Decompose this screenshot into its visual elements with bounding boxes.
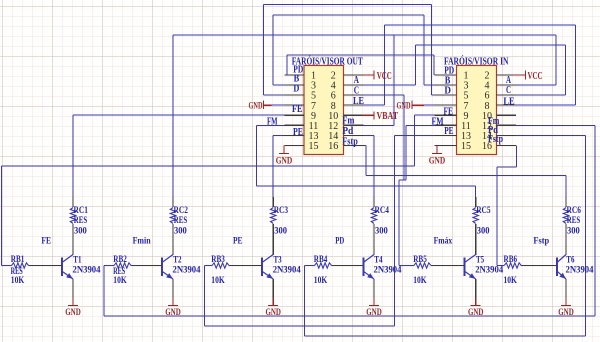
- svg-text:GND: GND: [276, 157, 293, 167]
- node Fm&#225;x (stage 5 input net label): [434, 237, 453, 247]
- resistor RB5 10K: [399, 255, 465, 286]
- wire net Pd-out (U1 pin14 to RC4/T4 collector): [364, 135, 375, 197]
- wire net PE-out (U1 pin13 to RC3/T3 collector): [273, 135, 284, 197]
- svg-text:GND: GND: [468, 308, 484, 318]
- ground GND at T3 emitter: [265, 279, 281, 318]
- node PD (stage 4 input net label): [335, 237, 344, 247]
- ground GND at T1 emitter: [65, 279, 81, 318]
- svg-text:PE: PE: [293, 127, 303, 138]
- wire net C (U1 pin6 riser): [364, 95, 405, 180]
- resistor RC3 300: [271, 197, 289, 255]
- ground GND at U2 pin 7: [397, 101, 435, 112]
- svg-text:300: 300: [375, 227, 388, 237]
- svg-text:Fm: Fm: [342, 116, 355, 127]
- svg-text:RC1: RC1: [74, 206, 89, 216]
- wire net Fstp-in (U2 pin16 to RB6): [497, 145, 517, 265]
- svg-text:15: 15: [461, 141, 471, 152]
- node Fstp (stage 6 input net label): [533, 237, 549, 247]
- svg-text:RB2: RB2: [113, 255, 127, 265]
- wire net Fmin-in (U2 pin12 to RB2 via bottom): [104, 125, 595, 316]
- transistor T5 2N3904: [465, 255, 504, 280]
- transistor T2 2N3904: [162, 255, 201, 280]
- svg-text:300: 300: [567, 227, 580, 237]
- svg-text:LE: LE: [503, 97, 515, 108]
- svg-text:2N3904: 2N3904: [566, 265, 594, 275]
- svg-text:Fstp: Fstp: [533, 237, 549, 247]
- node FE (stage 1 input net label): [41, 237, 51, 247]
- svg-text:PE: PE: [444, 126, 454, 137]
- resistor RC4 300: [371, 197, 389, 255]
- resistor RC6 300: [563, 197, 581, 255]
- svg-text:PD: PD: [335, 237, 344, 247]
- ground GND at U1 pin 15: [276, 145, 293, 166]
- resistor RB6 10K: [497, 255, 557, 286]
- svg-text:300: 300: [74, 227, 87, 237]
- svg-text:VCC: VCC: [528, 71, 543, 82]
- svg-text:10K: 10K: [504, 276, 518, 286]
- svg-text:Fmáx: Fmáx: [434, 237, 453, 247]
- svg-text:RC4: RC4: [375, 206, 390, 216]
- wire net PD-in (U2 pin14 to RB4 via bottom): [304, 135, 585, 336]
- wire net FE-in (U2 pin9 to RB1): [2, 115, 435, 265]
- svg-text:FE: FE: [41, 237, 51, 247]
- svg-text:RB5: RB5: [413, 255, 427, 265]
- transistor T6 2N3904: [557, 255, 594, 280]
- svg-text:T4: T4: [374, 256, 382, 266]
- svg-text:GND: GND: [265, 308, 281, 318]
- svg-text:2N3904: 2N3904: [273, 265, 301, 275]
- svg-text:2N3904: 2N3904: [374, 265, 402, 275]
- resistor RC2 300: [170, 197, 188, 255]
- svg-text:T3: T3: [274, 256, 282, 266]
- ground GND at T2 emitter: [165, 279, 181, 318]
- svg-text:10K: 10K: [113, 276, 127, 286]
- svg-text:RC3: RC3: [274, 206, 289, 216]
- svg-text:C: C: [354, 85, 359, 96]
- svg-text:D: D: [444, 85, 451, 96]
- U1 left pin stubs (pins 1,3,5,7,9,11,13,15): [285, 75, 305, 145]
- ground GND at U2 pin 15: [429, 145, 446, 166]
- svg-text:Pd: Pd: [342, 126, 354, 137]
- U1 left pin net labels PD B D FE FM PE: [267, 64, 303, 138]
- wire net FM-in (U2 pin11 to RB5): [399, 125, 435, 265]
- wire net PE-in (U2 pin13 to RB3 via bottom): [205, 135, 435, 326]
- power VCC at U1 pin 2: [364, 71, 392, 82]
- svg-text:RC2: RC2: [174, 206, 189, 216]
- svg-text:GND: GND: [165, 308, 181, 318]
- svg-text:10K: 10K: [211, 276, 225, 286]
- svg-text:300: 300: [174, 227, 187, 237]
- wire net D (U1 pin5 to U2 pin5 via top): [264, 5, 435, 96]
- svg-text:10K: 10K: [413, 276, 427, 286]
- svg-text:LE: LE: [353, 96, 364, 107]
- ground GND at U1 pin 7: [249, 101, 285, 112]
- svg-text:2N3904: 2N3904: [475, 265, 503, 275]
- svg-text:16: 16: [328, 141, 338, 152]
- svg-text:15: 15: [309, 141, 319, 152]
- ground GND at T5 emitter: [468, 279, 484, 318]
- resistor RB3 10K: [205, 255, 263, 286]
- power VCC at U2 pin 2: [513, 71, 543, 82]
- ground GND at T6 emitter: [558, 279, 574, 318]
- svg-text:10K: 10K: [11, 276, 25, 286]
- svg-text:C: C: [506, 85, 511, 96]
- svg-text:2N3904: 2N3904: [173, 265, 201, 275]
- U2 left pin net labels PD B D FE FM PE: [432, 65, 455, 137]
- wire net B (U1 pin3 to U2 pin3 via top): [273, 15, 435, 85]
- svg-text:T5: T5: [476, 256, 484, 266]
- resistor RC5 300: [473, 197, 491, 255]
- svg-text:Fstp: Fstp: [488, 134, 503, 145]
- U2 right pin stubs (pins 2,4,6,8,10,12,14,16): [497, 75, 517, 145]
- svg-text:VBAT: VBAT: [377, 111, 399, 122]
- wire net A (U1 pin4 to U2 pin6 via top): [364, 45, 566, 95]
- power VBAT at U1 pin 10: [362, 111, 398, 122]
- svg-text:GND: GND: [366, 308, 382, 318]
- svg-text:RES: RES: [567, 216, 580, 226]
- svg-text:FE: FE: [444, 107, 454, 118]
- U2 right pin net labels A C LE Fm Pd Fstp: [488, 75, 515, 145]
- svg-text:RB1: RB1: [11, 255, 25, 265]
- svg-text:T6: T6: [566, 256, 574, 266]
- svg-text:300: 300: [274, 227, 287, 237]
- svg-text:T1: T1: [73, 256, 81, 266]
- transistor T3 2N3904: [262, 255, 301, 280]
- svg-text:RB4: RB4: [314, 255, 328, 265]
- resistor RC1 300: [70, 197, 88, 255]
- wire net LE (U1 pin8 to U2 pin8 via top): [364, 25, 576, 105]
- IC U2 FAROIS/VISOR IN (16-pin header): [444, 55, 509, 154]
- svg-text:RB3: RB3: [211, 255, 225, 265]
- wire net FM-out (U1 pin11 to RC5/T5 collector): [257, 125, 476, 197]
- transistor T1 2N3904: [62, 255, 101, 280]
- svg-text:Fstp: Fstp: [342, 136, 358, 147]
- wire net PD (U1 pin1 to U2 pin1): [287, 55, 434, 75]
- U1 right pin stubs (pins 2,4,6,8,10,12,14,16): [344, 75, 364, 145]
- resistor RB2 10K: [104, 255, 162, 286]
- svg-text:RB6: RB6: [504, 255, 518, 265]
- svg-text:GND: GND: [558, 308, 574, 318]
- svg-text:GND: GND: [249, 101, 263, 111]
- transistor T4 2N3904: [363, 255, 401, 280]
- U1 right pin net labels A C LE Fm Pd Fstp: [342, 75, 364, 147]
- svg-text:RC6: RC6: [567, 206, 582, 216]
- ground GND at T4 emitter: [366, 279, 382, 318]
- node PE (stage 3 input net label): [233, 237, 243, 247]
- svg-text:GND: GND: [65, 308, 81, 318]
- svg-text:GND: GND: [429, 157, 446, 167]
- resistor RB1 10K: [2, 255, 62, 286]
- svg-text:10K: 10K: [314, 276, 328, 286]
- IC U1 FAROIS/VISOR OUT (16-pin header): [292, 55, 363, 154]
- svg-text:RC5: RC5: [476, 206, 491, 216]
- svg-text:RES: RES: [174, 216, 187, 226]
- svg-text:Fmin: Fmin: [133, 237, 152, 247]
- svg-text:RES: RES: [74, 216, 87, 226]
- wire net Fstp-out (U1 pin16 to RC6/T6 collector): [364, 145, 567, 197]
- wire net Fm-out (T2 collector to U1 pin12 and U2 pin4): [173, 35, 556, 197]
- svg-text:PE: PE: [233, 237, 243, 247]
- svg-text:T2: T2: [173, 256, 181, 266]
- svg-text:D: D: [293, 84, 299, 95]
- svg-text:FE: FE: [292, 104, 303, 115]
- U2 left pin stubs (pins 1,3,5,7,9,11,13,15): [435, 75, 457, 145]
- resistor RB4 10K: [304, 255, 363, 286]
- svg-text:2N3904: 2N3904: [73, 265, 101, 275]
- svg-text:300: 300: [477, 227, 490, 237]
- wire net FE-out (U1 pin9 to RC1/T1 collector): [73, 115, 285, 197]
- node Fmin (stage 2 input net label): [133, 237, 152, 247]
